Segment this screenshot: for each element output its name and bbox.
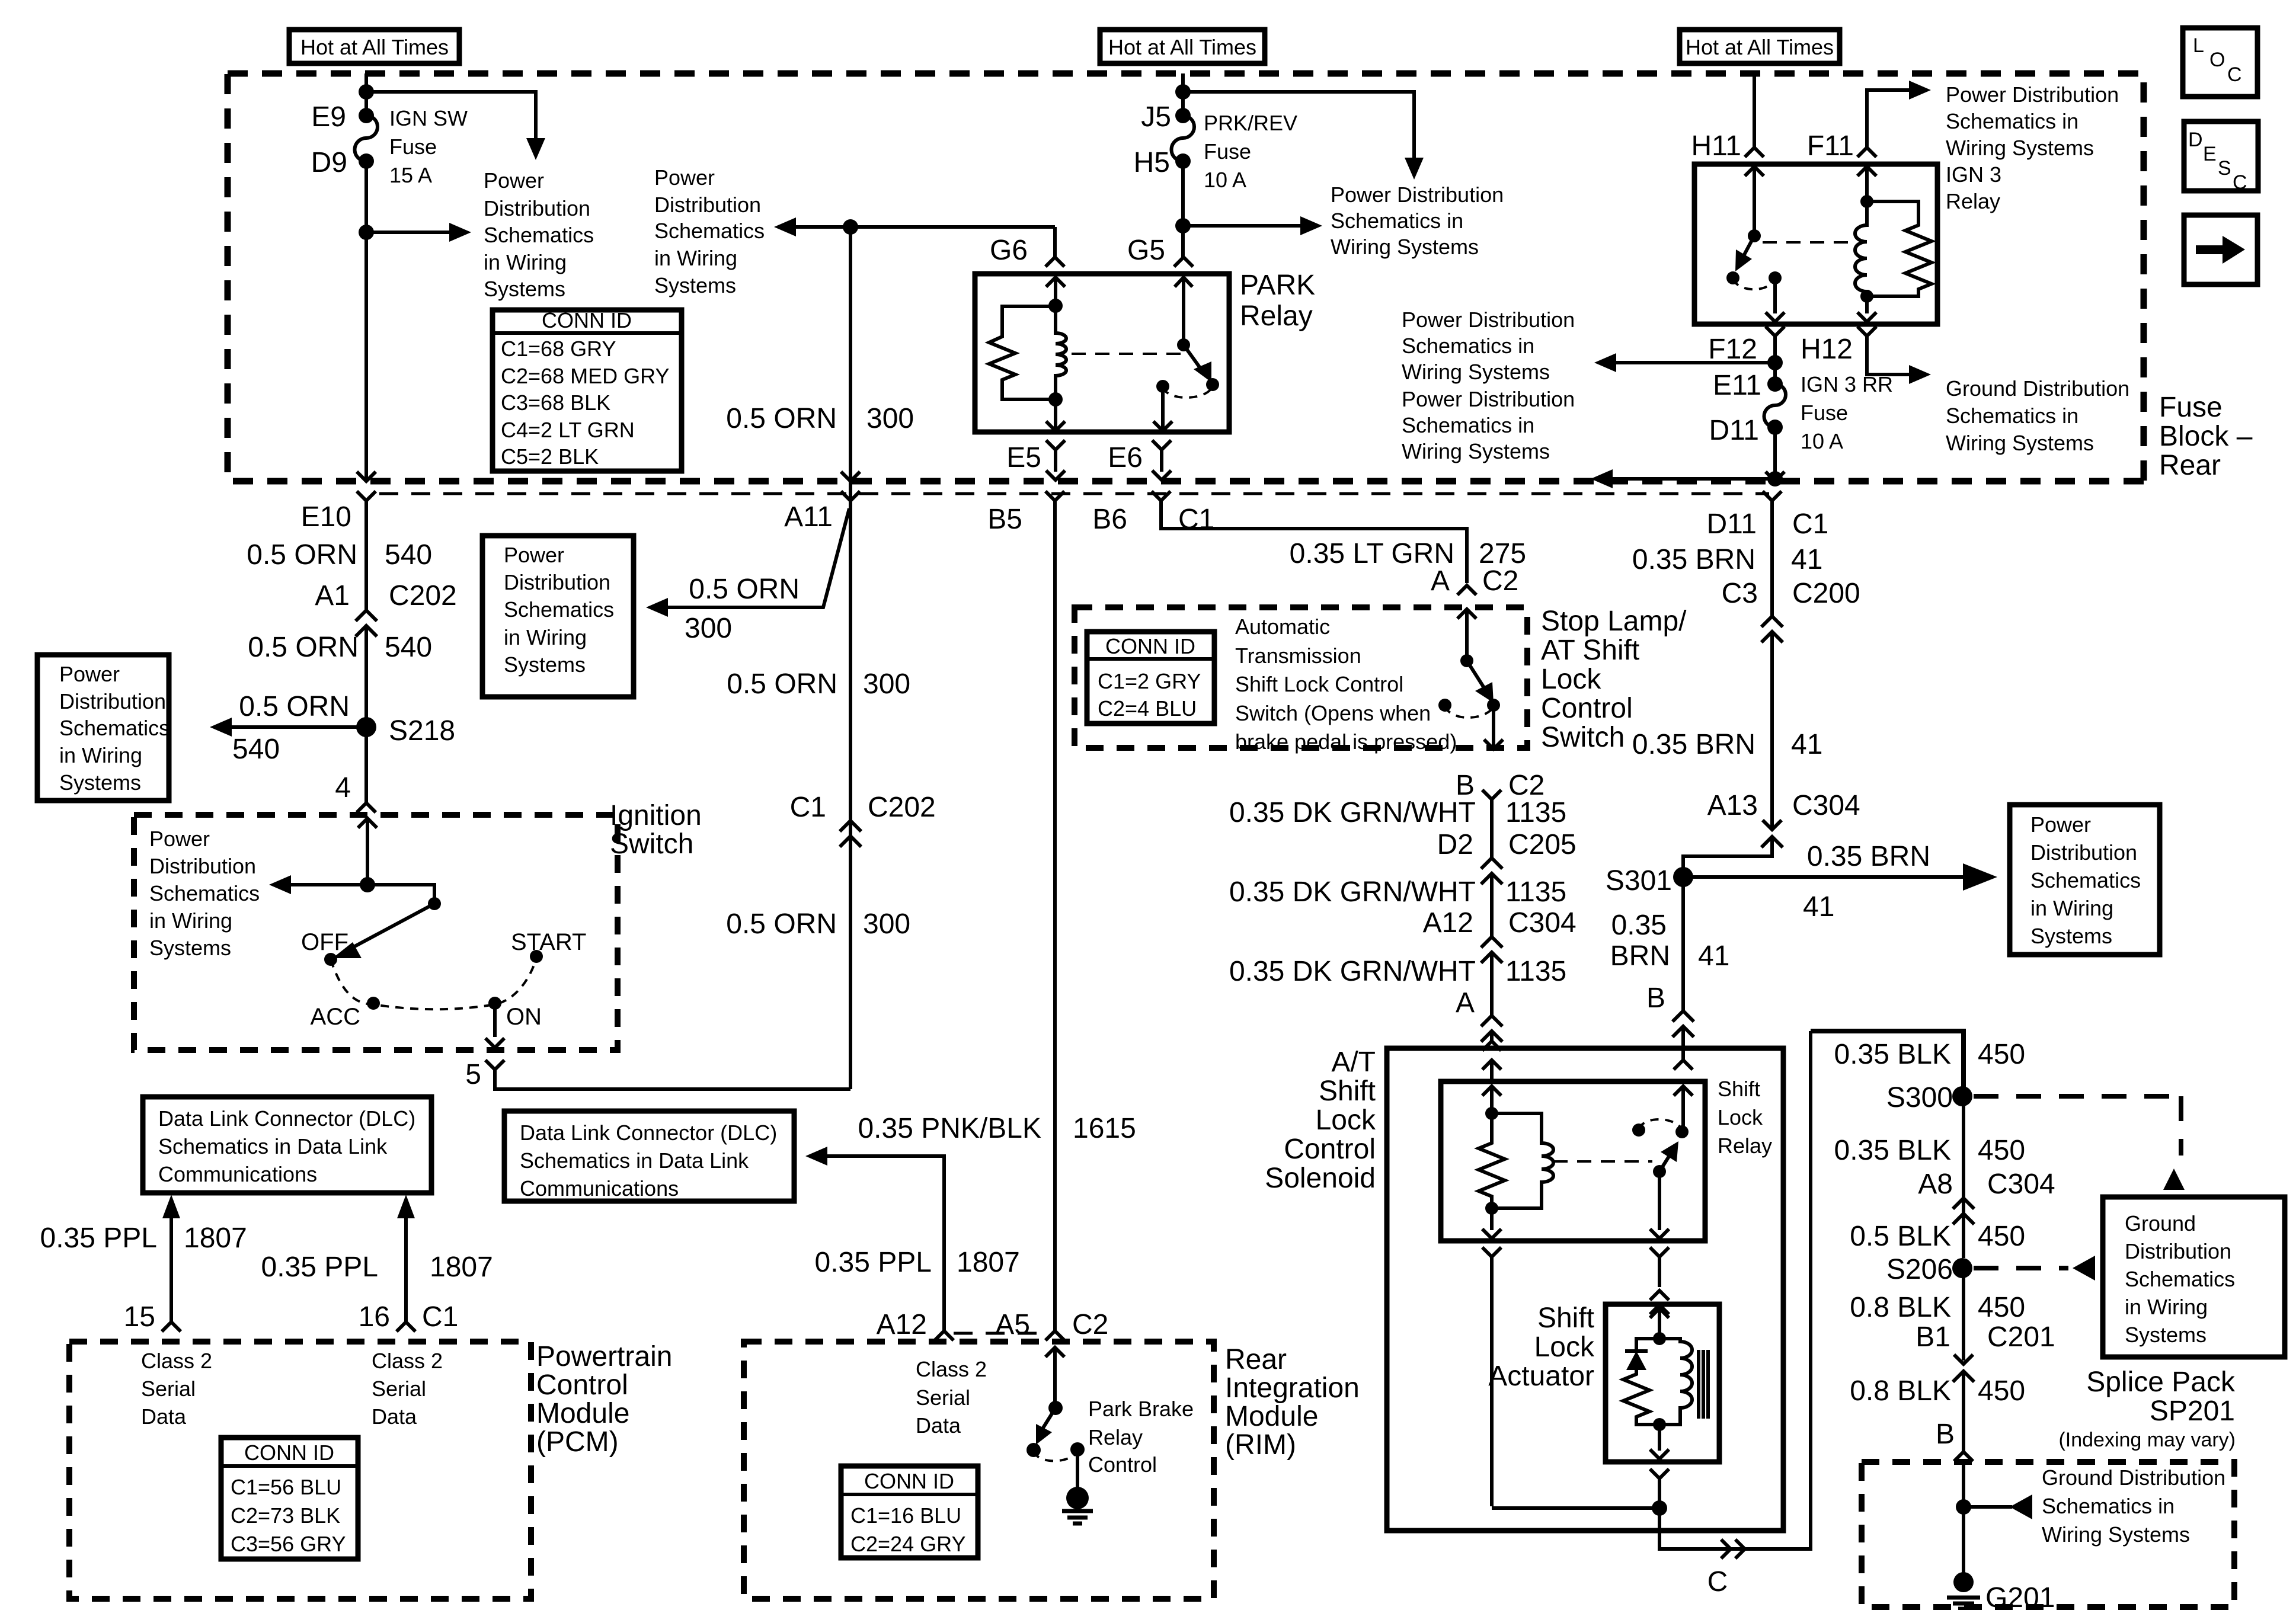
node coil top [1860,195,1873,208]
svg-text:in Wiring: in Wiring [59,743,142,767]
svg-text:brake pedal is pressed): brake pedal is pressed) [1235,729,1457,754]
svg-text:Schematics in: Schematics in [2042,1494,2175,1518]
svg-text:A1: A1 [315,580,350,612]
svg-text:Power Distribution: Power Distribution [1946,82,2119,107]
Hot at All Times box 2 [1100,30,1265,63]
svg-text:Schematics: Schematics [59,716,170,740]
wire actuator out [1650,1425,1669,1459]
svg-text:Power Distribution: Power Distribution [1402,387,1575,411]
svg-text:C1: C1 [1792,508,1828,540]
svg-text:Schematics: Schematics [504,597,614,622]
shift lock relay inner box [1441,1081,1705,1241]
stop lamp AT shift lock switch dashed box [1075,607,1527,748]
svg-text:Fuse: Fuse [389,135,437,159]
wire branch to power distribution ref [366,92,536,138]
svg-text:Integration: Integration [1225,1372,1360,1404]
svg-text:Communications: Communications [520,1176,679,1201]
svg-text:0.5 ORN: 0.5 ORN [248,632,359,663]
svg-text:0.35 PPL: 0.35 PPL [40,1222,157,1254]
S206 dashed ref [1974,1266,2068,1270]
svg-text:0.5 ORN: 0.5 ORN [239,691,350,722]
wire H11 feed [1753,73,1756,148]
svg-text:in Wiring: in Wiring [654,246,737,270]
connector A11 fork below border [841,491,860,1089]
svg-text:0.35 PPL: 0.35 PPL [815,1247,932,1278]
node W1 top junction [359,84,374,100]
splice S206 [1952,1258,1972,1278]
resistor in PARK relay [989,306,1056,399]
switch contact START [530,950,543,963]
svg-text:Switch (Opens when: Switch (Opens when [1235,701,1431,725]
DESC legend box [2184,121,2258,191]
wire W1 0.5 ORN 540 segment [364,543,368,610]
svg-text:Systems: Systems [59,770,141,795]
switch contact ON [488,997,501,1010]
svg-text:E: E [2203,143,2217,165]
svg-text:Splice Pack: Splice Pack [2086,1366,2236,1398]
wire label 0.8 BLK 450 [1962,1268,1965,1361]
connector B inline chevrons [1673,1011,1694,1060]
svg-text:Ground Distribution: Ground Distribution [1946,376,2129,401]
svg-text:G201: G201 [1985,1582,2055,1610]
svg-text:Systems: Systems [2125,1323,2207,1347]
svg-text:1807: 1807 [430,1251,493,1283]
svg-text:C2: C2 [1482,565,1518,597]
DLC note box 1 [143,1097,431,1193]
svg-text:C2: C2 [1072,1309,1108,1340]
wire switch out to F12 [1766,278,1785,322]
relay switch contacts [1726,271,1739,284]
svg-text:B5: B5 [987,504,1022,535]
svg-text:Data: Data [916,1413,961,1438]
svg-text:0.5 ORN: 0.5 ORN [247,539,357,571]
resistor shift lock relay [1479,1113,1505,1208]
svg-text:A13: A13 [1707,790,1758,821]
wire ref arrow left to note C [1613,477,1775,481]
svg-text:Switch: Switch [1541,722,1625,753]
CONN ID box fuse block [493,310,682,471]
wire coil out to H12 [1857,296,1876,322]
svg-text:G5: G5 [1127,235,1165,266]
svg-text:C: C [1707,1566,1728,1598]
connector C chevrons [1721,1539,1745,1558]
svg-text:Systems: Systems [2030,924,2112,948]
stop lamp switch arm [1457,609,1476,661]
svg-text:Data Link Connector (DLC): Data Link Connector (DLC) [158,1106,415,1131]
switch dashed arc [331,958,536,1009]
svg-text:SP201: SP201 [2150,1395,2235,1427]
svg-text:Transmission: Transmission [1235,644,1361,668]
svg-text:Schematics: Schematics [149,881,260,905]
Hot at All Times box 1 [289,30,459,63]
note box power distribution left [37,655,169,801]
LOC legend box [2183,28,2257,97]
svg-text:Communications: Communications [158,1162,317,1186]
svg-text:Fuse: Fuse [1801,401,1848,425]
svg-text:BRN: BRN [1610,940,1670,972]
svg-text:41: 41 [1791,729,1822,760]
connector A12 C304 inline [1481,937,1502,1016]
wire branch right to ref arrow [1183,92,1414,158]
svg-text:Schematics in Data Link: Schematics in Data Link [520,1148,749,1173]
node ignition feed junction [360,877,375,892]
svg-text:Control: Control [1284,1134,1376,1165]
svg-text:D11: D11 [1707,508,1757,540]
connector G6 male arrow inside relay [1046,277,1065,306]
svg-text:Ignition: Ignition [610,800,702,831]
svg-text:C202: C202 [389,580,457,612]
Hot at All Times box 3 [1680,30,1840,63]
svg-text:0.35 PNK/BLK: 0.35 PNK/BLK [858,1113,1041,1144]
svg-text:15 A: 15 A [389,163,432,187]
connector forks below relay box [1482,1247,1659,1508]
arrow down to note 1 [526,138,545,160]
arrow to ground distribution note [1909,365,1931,384]
relay switch G5 arm [1182,277,1185,345]
svg-text:D9: D9 [311,147,347,178]
svg-text:in Wiring: in Wiring [484,250,567,274]
svg-text:10 A: 10 A [1204,168,1246,192]
node C junction [1652,1500,1667,1516]
svg-text:C4=2 LT GRN: C4=2 LT GRN [501,418,635,442]
svg-text:IGN 3 RR: IGN 3 RR [1801,372,1893,396]
connector A chevrons at solenoid [1481,1016,1502,1042]
svg-text:Wiring Systems: Wiring Systems [1402,439,1550,463]
svg-text:D2: D2 [1437,829,1473,860]
svg-text:A12: A12 [1423,907,1473,939]
relay dashed link [1553,1160,1652,1163]
svg-text:Schematics: Schematics [2030,868,2141,892]
svg-text:0.8 BLK: 0.8 BLK [1850,1375,1951,1407]
svg-text:Power: Power [654,165,715,190]
wire arrow right to note 1 [366,231,449,234]
connector H11 fork [1745,148,1764,157]
svg-text:C1=2 GRY: C1=2 GRY [1098,669,1201,693]
svg-text:Distribution: Distribution [484,196,590,220]
svg-text:Power: Power [149,827,210,851]
svg-text:Lock: Lock [1718,1105,1763,1129]
svg-text:A: A [1431,565,1450,597]
svg-text:Relay: Relay [1946,189,2000,213]
svg-text:C1=68 GRY: C1=68 GRY [501,337,616,361]
svg-text:in Wiring: in Wiring [149,908,232,933]
svg-text:Shift: Shift [1319,1076,1376,1107]
svg-text:540: 540 [385,539,432,571]
svg-text:450: 450 [1978,1292,2025,1323]
relay dashed link [1072,353,1188,355]
svg-text:E10: E10 [301,501,351,533]
svg-text:Schematics: Schematics [654,219,765,243]
fuse F-E9 IGN SW 15A [359,108,374,123]
connector E10 female fork below border [357,491,376,543]
svg-text:10 A: 10 A [1801,429,1843,453]
node resistor bottom [1485,1202,1498,1215]
wire PCM pin 16 to DLC [404,1218,408,1322]
wire arrow left to note [291,883,367,886]
node F12 junction [1767,355,1783,370]
svg-text:0.35 LT GRN: 0.35 LT GRN [1290,538,1454,569]
svg-text:in Wiring: in Wiring [2125,1295,2208,1319]
svg-text:Schematics: Schematics [2125,1267,2235,1291]
ground at park brake [1076,1449,1079,1493]
svg-text:41: 41 [1803,891,1834,923]
svg-text:F12: F12 [1708,334,1757,365]
svg-text:C202: C202 [868,792,936,823]
wire B branch down from S301 [1681,877,1685,1011]
svg-text:Class 2: Class 2 [141,1349,212,1373]
svg-text:A8: A8 [1918,1169,1953,1200]
wire label 0.35 BLK 450 second [1962,1096,1965,1258]
relay dashed link [1763,241,1855,244]
svg-text:0.35: 0.35 [1611,910,1667,941]
svg-text:L: L [2193,34,2204,57]
splice S301 [1673,867,1693,887]
wire G6 feed line with ref arrow [796,225,1055,229]
connector F11 male arrow inside [1857,167,1876,201]
svg-text:A12: A12 [877,1309,927,1340]
svg-text:C1: C1 [790,792,826,823]
node actuator top [1653,1332,1666,1345]
svg-text:Systems: Systems [654,273,736,297]
svg-text:0.35 BRN: 0.35 BRN [1632,544,1755,575]
svg-text:C304: C304 [1987,1169,2055,1200]
ignition switch rotor arm [428,897,441,910]
svg-text:Solenoid: Solenoid [1265,1163,1376,1194]
wire switch B down [1484,705,1503,749]
actuator coil [1659,1339,1692,1425]
connector 4 fork at ignition switch [357,798,376,812]
Powertrain control module dashed box [69,1342,531,1599]
svg-text:C304: C304 [1792,790,1860,821]
svg-text:Relay: Relay [1240,300,1313,332]
svg-text:OFF: OFF [301,929,348,955]
svg-text:Wiring Systems: Wiring Systems [1331,235,1479,259]
svg-text:Hot at All Times: Hot at All Times [1108,35,1256,59]
svg-text:300: 300 [863,908,910,940]
connector 4 male arrow inside box [358,818,377,885]
svg-text:15: 15 [124,1301,155,1333]
svg-text:Ground Distribution: Ground Distribution [2042,1465,2225,1490]
connector E6 fork below relay [1152,440,1171,480]
switch contact ACC [367,997,380,1010]
svg-text:H12: H12 [1801,334,1853,365]
svg-text:Module: Module [536,1398,629,1429]
svg-text:Schematics in Data Link: Schematics in Data Link [158,1134,388,1158]
connector E10 male arrow at fuse block border [357,472,376,481]
svg-text:Systems: Systems [484,277,565,301]
wire W1 IGN SW fuse feed [364,73,368,480]
svg-text:300: 300 [866,403,914,434]
svg-text:IGN SW: IGN SW [389,106,468,130]
note box: power distribution mid lower [482,536,634,697]
svg-text:D11: D11 [1709,415,1760,446]
svg-text:S: S [2218,157,2231,180]
connector B6 fork below border [1152,491,1467,583]
svg-text:D: D [2188,129,2203,151]
svg-text:Shift: Shift [1537,1302,1594,1334]
svg-text:H11: H11 [1691,130,1742,162]
relay switch arm [1653,1165,1666,1178]
svg-text:Relay: Relay [1088,1425,1143,1449]
svg-text:E9: E9 [311,101,346,133]
node actuator bottom [1653,1418,1666,1431]
svg-text:Park Brake: Park Brake [1088,1397,1194,1421]
svg-text:J5: J5 [1141,101,1171,133]
connector A5 male arrow inside RIM [1045,1347,1064,1408]
svg-text:IGN 3: IGN 3 [1946,162,2001,187]
svg-text:0.35 BLK: 0.35 BLK [1834,1039,1951,1070]
wire ON pin 5 down [485,1003,504,1048]
thin dashed connector segment at RIM [954,1332,1045,1335]
wire S218 ref arrow left [232,725,366,729]
diode and resistor branch [1623,1339,1659,1425]
connector A11 male arrow at border [841,472,860,481]
wire W2 A11 branch [849,227,852,501]
svg-text:Distribution: Distribution [149,854,256,878]
svg-text:(Indexing may vary): (Indexing may vary) [2058,1429,2236,1451]
arrow down to note A [1405,158,1424,180]
note box: power distribution right [2010,805,2160,955]
svg-text:AT Shift: AT Shift [1541,635,1639,666]
park brake relay control switch [1048,1401,1063,1415]
ignition switch dashed box [134,815,618,1050]
connector E5 fork below relay [1046,440,1065,480]
svg-text:Lock: Lock [1541,664,1601,695]
wire S301 ref to power distribution box [1683,875,1963,879]
node relay coil bottom [1048,392,1063,406]
svg-text:Stop Lamp/: Stop Lamp/ [1541,606,1687,637]
svg-text:Rear: Rear [1225,1344,1287,1375]
CONN ID box stop lamp [1087,632,1214,724]
node D11 junction [1767,471,1783,486]
svg-text:0.8 BLK: 0.8 BLK [1850,1292,1951,1323]
connector D2 C205 inline [1481,858,1502,937]
svg-text:B: B [1646,982,1665,1014]
svg-text:H5: H5 [1134,147,1170,178]
svg-text:0.35 DK GRN/WHT: 0.35 DK GRN/WHT [1229,956,1476,987]
svg-text:Shift Lock Control: Shift Lock Control [1235,672,1403,696]
splice S218 [356,717,376,737]
wire C out of solenoid [1659,1031,1811,1549]
svg-text:Schematics in: Schematics in [1331,209,1463,233]
connector chevron pair to actuator [1650,1291,1669,1314]
svg-text:41: 41 [1698,940,1729,972]
svg-text:A/T: A/T [1331,1046,1376,1078]
svg-text:C1=56 BLU: C1=56 BLU [231,1475,341,1499]
wire into actuator [1650,1308,1669,1339]
svg-text:C2=68 MED GRY: C2=68 MED GRY [501,364,669,388]
wire W1 to ignition switch [364,727,368,798]
svg-text:in Wiring: in Wiring [2030,896,2113,920]
ground distribution dashed box [1862,1462,2234,1607]
svg-text:ON: ON [506,1004,542,1030]
svg-text:450: 450 [1978,1221,2025,1252]
svg-text:Systems: Systems [149,936,231,960]
svg-text:0.35 BRN: 0.35 BRN [1807,841,1930,872]
svg-text:Schematics in: Schematics in [1402,413,1534,437]
svg-text:300: 300 [685,613,732,644]
svg-text:C205: C205 [1508,829,1576,860]
svg-text:1615: 1615 [1073,1113,1136,1144]
svg-text:Data Link Connector (DLC): Data Link Connector (DLC) [520,1121,777,1145]
node W2 tap on G6 feed [843,219,858,235]
svg-text:A5: A5 [995,1309,1030,1340]
node coil bottom [1860,290,1873,303]
svg-text:C201: C201 [1987,1321,2055,1353]
svg-text:0.5 ORN: 0.5 ORN [689,574,800,605]
svg-text:5: 5 [465,1059,481,1090]
actuator core bars [1699,1350,1708,1419]
svg-text:540: 540 [232,734,280,765]
svg-text:Wiring Systems: Wiring Systems [1946,136,2094,160]
svg-text:C3=68 BLK: C3=68 BLK [501,391,610,415]
svg-text:C200: C200 [1792,578,1860,609]
svg-text:C3=56 GRY: C3=56 GRY [231,1532,346,1556]
svg-text:0.5 ORN: 0.5 ORN [727,668,837,700]
svg-text:B1: B1 [1916,1321,1950,1353]
svg-text:Powertrain: Powertrain [536,1341,672,1372]
svg-text:Lock: Lock [1316,1105,1376,1136]
svg-text:Hot at All Times: Hot at All Times [300,35,449,59]
svg-text:16: 16 [359,1301,390,1333]
coil in IGN 3 relay [1855,201,1867,296]
fuse F-J5 PRK/REV 10A [1175,108,1191,123]
svg-text:Serial: Serial [372,1377,426,1401]
svg-text:C1=16 BLU: C1=16 BLU [850,1503,961,1528]
svg-text:41: 41 [1791,544,1822,575]
DLC note box 2 [504,1111,794,1201]
svg-text:C1: C1 [1178,504,1214,535]
svg-text:Ground: Ground [2125,1211,2196,1235]
svg-text:Distribution: Distribution [2030,840,2137,865]
svg-text:S300: S300 [1886,1082,1953,1113]
connector F11 fork [1857,148,1876,157]
svg-text:E6: E6 [1108,442,1143,473]
svg-text:Schematics: Schematics [484,223,594,247]
splice S300 [1952,1086,1972,1106]
node relay coil top [1048,299,1063,313]
svg-text:Relay: Relay [1718,1134,1772,1158]
svg-text:Rear: Rear [2159,450,2221,481]
shift lock actuator box [1606,1304,1719,1462]
svg-text:Wiring Systems: Wiring Systems [1402,360,1550,384]
wire arrow right to note A [1183,224,1300,228]
svg-text:Fuse: Fuse [1204,139,1251,164]
svg-text:F11: F11 [1807,130,1854,162]
svg-text:C3: C3 [1722,578,1758,609]
S300 dashed ref [1974,1096,2181,1156]
svg-text:1807: 1807 [957,1247,1020,1278]
IGN 3 relay box [1694,164,1937,324]
coil in PARK relay [1056,306,1066,399]
svg-text:Distribution: Distribution [2125,1239,2231,1263]
svg-text:Power: Power [504,543,564,567]
svg-text:4: 4 [335,772,351,804]
coil shift lock relay [1492,1113,1553,1208]
fuse F-E11 IGN 3 RR 10A [1773,363,1777,384]
svg-text:ACC: ACC [311,1004,360,1030]
svg-text:B6: B6 [1092,504,1127,535]
svg-text:1135: 1135 [1505,956,1566,987]
svg-text:C2=24 GRY: C2=24 GRY [850,1532,965,1556]
wire A11 ref diagonal [668,508,849,607]
wire F11 with ref arrow to note [1867,90,1909,148]
svg-text:CONN ID: CONN ID [864,1469,954,1493]
svg-text:1135: 1135 [1505,797,1566,828]
svg-text:Serial: Serial [141,1377,196,1401]
svg-text:C2=4 BLU: C2=4 BLU [1098,696,1197,721]
wire E6 exit [1153,386,1172,431]
